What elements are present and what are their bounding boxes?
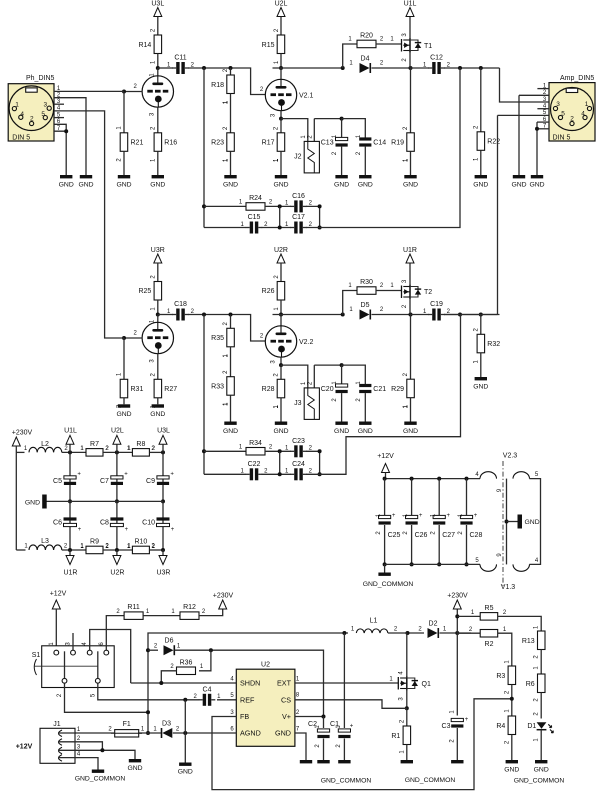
svg-text:C7: C7 — [100, 478, 109, 485]
svg-text:GND: GND — [473, 384, 488, 391]
ic U2 — [236, 669, 295, 746]
ground — [224, 422, 236, 425]
svg-text:+: + — [446, 513, 450, 519]
node riaa-mid-top — [278, 449, 282, 453]
wire — [123, 338, 125, 379]
node q1-src — [405, 706, 409, 710]
svg-text:+: + — [124, 471, 128, 477]
wire riaa-bottom — [204, 227, 246, 229]
switch coupling — [34, 659, 36, 675]
svg-text:1: 1 — [15, 102, 19, 109]
triode V2.2a — [142, 322, 173, 353]
wire q1-source — [406, 689, 408, 709]
node v+ — [322, 715, 326, 719]
wire — [273, 68, 282, 79]
svg-text:1: 1 — [585, 101, 589, 108]
wire cathode — [280, 357, 282, 365]
wire — [103, 451, 133, 453]
resistor R21 — [120, 133, 128, 152]
wire cs-row — [295, 700, 407, 709]
svg-text:U2R: U2R — [110, 570, 124, 577]
ground — [475, 175, 487, 178]
capacitor C5 — [64, 476, 76, 479]
wire — [158, 314, 173, 316]
wire — [342, 365, 366, 385]
svg-text:R21: R21 — [131, 140, 144, 147]
svg-text:U1R: U1R — [63, 570, 77, 577]
svg-text:GND: GND — [358, 428, 373, 435]
ground GND_COMMON — [384, 564, 386, 572]
wire — [143, 615, 180, 617]
wire — [69, 501, 71, 550]
transistor T1 — [401, 39, 403, 52]
ground rail — [42, 495, 47, 509]
svg-text:+12V: +12V — [16, 744, 33, 751]
wire — [323, 717, 325, 729]
resistor R29 — [407, 379, 415, 398]
svg-text:R29: R29 — [391, 386, 404, 393]
resistor R24 — [246, 203, 265, 211]
wire — [540, 650, 542, 675]
capacitor C19 — [432, 309, 435, 321]
wire — [69, 452, 71, 501]
wire — [444, 314, 500, 316]
resistor R9 — [86, 546, 103, 554]
wire — [149, 451, 163, 453]
wire — [103, 549, 133, 551]
svg-text:R14: R14 — [138, 42, 151, 49]
resistor R23 — [227, 133, 235, 152]
wire output-R-rise — [444, 314, 498, 316]
wire u2-gnd — [295, 733, 306, 760]
wire riaa-bottom — [204, 473, 246, 475]
node U3L-rail — [161, 450, 165, 454]
node bypass-junction — [340, 363, 344, 367]
ground — [531, 175, 543, 178]
wire — [511, 735, 513, 761]
svg-text:REF: REF — [240, 696, 255, 705]
diode D5 — [360, 310, 370, 320]
wire ph-pin6 — [54, 124, 66, 131]
ground — [275, 175, 287, 178]
svg-text:V+: V+ — [282, 712, 291, 721]
wire — [480, 315, 482, 335]
svg-text:L2: L2 — [41, 441, 49, 448]
ground — [359, 422, 371, 425]
wire — [457, 632, 480, 634]
wire s1-pin6 — [106, 616, 124, 651]
wire — [230, 395, 232, 421]
wire c3-col — [456, 633, 458, 716]
node feedback-branch — [341, 66, 345, 70]
svg-text:GND: GND — [334, 182, 349, 189]
svg-text:S1: S1 — [32, 652, 41, 659]
svg-text:CS: CS — [281, 696, 291, 705]
capacitor C3 — [451, 718, 463, 721]
wire — [410, 315, 412, 380]
wire — [343, 291, 357, 315]
wire f1-row — [139, 732, 161, 734]
wire agnd-row — [173, 732, 237, 734]
wire — [456, 609, 458, 633]
wire — [265, 205, 291, 207]
capacitor C13 — [336, 137, 348, 140]
wire gate — [376, 43, 402, 45]
wire — [188, 315, 265, 342]
svg-text:C4: C4 — [203, 686, 212, 693]
ground — [317, 760, 329, 763]
svg-text:+: + — [350, 724, 354, 730]
wire bottom-rail — [16, 549, 25, 551]
wire — [498, 633, 512, 666]
node feedback-branch — [341, 313, 345, 317]
ground heater — [507, 521, 518, 523]
wire heater-top-rail — [386, 478, 481, 480]
wire — [281, 365, 308, 388]
svg-text:GND: GND — [273, 182, 288, 189]
svg-text:D3: D3 — [162, 721, 171, 728]
svg-text:C15: C15 — [248, 214, 261, 221]
wire — [116, 452, 118, 501]
wire — [372, 314, 411, 316]
wire q1-drain — [406, 633, 409, 678]
wire — [314, 364, 341, 366]
svg-text:C25: C25 — [388, 532, 401, 539]
svg-text:R18: R18 — [211, 82, 224, 89]
svg-text:Amp_DIN5: Amp_DIN5 — [560, 75, 594, 82]
wire — [411, 67, 430, 69]
svg-text:J1: J1 — [53, 721, 61, 728]
wire j1-pin4 — [58, 758, 98, 770]
svg-text:R20: R20 — [360, 33, 373, 40]
capacitor C28 — [460, 515, 472, 518]
node riaa-tap — [202, 313, 206, 317]
capacitor C9 — [157, 476, 169, 479]
node source-junction — [409, 66, 413, 70]
wire — [281, 314, 343, 316]
resistor R3 — [508, 666, 515, 685]
svg-text:GND: GND — [403, 182, 418, 189]
wire — [123, 92, 125, 133]
svg-text:4: 4 — [20, 111, 24, 118]
node r5-tap — [455, 614, 459, 618]
svg-text:+230V: +230V — [447, 593, 468, 600]
node anode-left — [156, 66, 160, 70]
svg-text:GND_COMMON: GND_COMMON — [514, 778, 565, 785]
svg-text:T1: T1 — [424, 43, 432, 50]
node riaa-return — [458, 66, 462, 70]
wire — [540, 693, 542, 719]
wire — [410, 68, 412, 133]
svg-text:GND_COMMON: GND_COMMON — [363, 581, 414, 588]
ground GND_COMMON — [92, 770, 104, 773]
svg-text:R23: R23 — [211, 140, 224, 147]
node rail — [383, 562, 387, 566]
wire amp-pin2 — [519, 94, 549, 96]
node cathode-junction — [279, 117, 283, 121]
wire riaa-return — [306, 68, 460, 228]
ground — [451, 760, 463, 763]
resistor R19 — [407, 133, 415, 152]
svg-text:Ph_DIN5: Ph_DIN5 — [26, 75, 55, 82]
svg-text:U2L: U2L — [111, 428, 124, 435]
wire — [157, 17, 159, 36]
wire — [157, 398, 159, 405]
node q1-drain — [406, 631, 410, 635]
node +230V-out — [455, 631, 459, 635]
wire ph-pin2 — [54, 98, 86, 175]
svg-text:C12: C12 — [430, 55, 443, 62]
wire — [280, 119, 282, 133]
triode V2.1a — [142, 76, 173, 107]
wire — [273, 315, 282, 326]
wire — [343, 44, 357, 68]
node riaa-right-top — [318, 204, 322, 208]
wire — [162, 501, 164, 550]
wire — [372, 67, 411, 69]
wire — [157, 151, 159, 175]
wire — [411, 479, 413, 515]
wire cathode-left — [157, 107, 159, 133]
svg-text:+: + — [465, 717, 469, 723]
wire — [498, 616, 541, 631]
svg-text:GND_COMMON: GND_COMMON — [405, 777, 456, 784]
ground — [335, 422, 347, 425]
svg-text:R26: R26 — [262, 288, 275, 295]
node grid-divider — [229, 66, 233, 70]
ground — [60, 175, 72, 178]
svg-text:GND: GND — [529, 182, 544, 189]
svg-text:R17: R17 — [262, 140, 275, 147]
fuse F1 — [115, 730, 139, 737]
svg-text:C24: C24 — [292, 461, 305, 468]
resistor R15 — [277, 35, 285, 54]
svg-text:R34: R34 — [249, 440, 262, 447]
wire riaa-mid — [279, 206, 281, 227]
ground — [300, 760, 312, 763]
resistor R30 — [357, 287, 376, 295]
resistor R13 — [538, 631, 546, 650]
svg-text:T2: T2 — [424, 289, 432, 296]
node riaa-right-top — [318, 449, 322, 453]
wire j1-pin3 — [58, 750, 135, 759]
ground — [404, 175, 416, 178]
svg-text:R4: R4 — [496, 723, 505, 730]
node r36-tap — [209, 648, 213, 652]
resistor R28 — [277, 379, 285, 398]
svg-text:R35: R35 — [211, 335, 224, 342]
capacitor C22 — [250, 468, 253, 480]
node rail — [437, 477, 441, 481]
resistor R34 — [246, 448, 265, 456]
wire source — [409, 297, 411, 315]
svg-text:D2: D2 — [429, 621, 438, 628]
ground — [179, 763, 191, 766]
triode V2.1 — [265, 79, 296, 110]
wire — [217, 699, 236, 701]
svg-text:R32: R32 — [487, 341, 500, 348]
svg-text:C22: C22 — [248, 461, 261, 468]
resistor R5 — [480, 613, 498, 621]
resistor R6 — [538, 674, 546, 693]
node shdn — [159, 681, 163, 685]
node grid-divider — [229, 313, 233, 317]
capacitor C8 — [110, 517, 123, 520]
wire — [157, 263, 159, 282]
wire — [123, 151, 125, 175]
svg-text:GND: GND — [223, 428, 238, 435]
diode D6 — [164, 645, 174, 655]
wire — [314, 118, 341, 120]
capacitor C16 — [294, 200, 297, 212]
svg-text:U2: U2 — [261, 662, 270, 669]
wire gate — [376, 290, 402, 292]
svg-text:C23: C23 — [292, 438, 305, 445]
resistor R36 — [177, 667, 196, 675]
svg-text:+: + — [170, 471, 174, 477]
wire +12V-switched rail — [148, 633, 348, 733]
node rail — [410, 477, 414, 481]
wire — [466, 479, 468, 515]
svg-text:C6: C6 — [53, 520, 62, 527]
node heater-ct — [505, 520, 509, 524]
wire r36 — [199, 650, 211, 671]
node U2L-rail — [115, 450, 119, 454]
svg-text:GND: GND — [273, 428, 288, 435]
wire — [280, 263, 282, 282]
svg-text:U1L: U1L — [64, 428, 77, 435]
svg-text:R6: R6 — [526, 681, 535, 688]
node mid-rail — [115, 499, 119, 503]
wire — [188, 68, 265, 95]
node output-shunt — [479, 66, 483, 70]
wire — [158, 67, 173, 69]
wire — [265, 450, 291, 452]
node ref-gnd-branch — [183, 698, 187, 702]
svg-text:GND: GND — [59, 182, 74, 189]
svg-text:R22: R22 — [487, 139, 500, 146]
wire grid-left — [124, 337, 142, 339]
wire amp-pin5 output-R — [498, 114, 550, 116]
capacitor C18 — [176, 309, 179, 321]
node bypass-junction — [340, 117, 344, 121]
svg-text:C27: C27 — [442, 532, 455, 539]
resistor R12 — [180, 612, 199, 620]
wire shdn-row — [131, 682, 237, 684]
resistor R22 — [477, 132, 485, 151]
wire j1-pin2 — [58, 742, 102, 751]
ground — [152, 404, 164, 407]
capacitor C15 — [250, 222, 253, 234]
wire — [438, 525, 440, 564]
ground — [475, 377, 487, 380]
wire — [230, 94, 232, 133]
svg-text:GND_COMMON: GND_COMMON — [321, 778, 372, 785]
wire — [480, 353, 482, 377]
capacitor C7 — [111, 476, 123, 479]
svg-text:C5: C5 — [53, 478, 62, 485]
node riaa-mid-bot — [278, 472, 282, 476]
svg-text:2: 2 — [30, 115, 34, 122]
capacitor C10 — [157, 517, 170, 520]
wire ph-pin4 — [54, 111, 124, 338]
node U3R-rail — [161, 548, 165, 552]
wire grid-left — [124, 91, 142, 93]
ground — [335, 175, 347, 178]
inductor L2 — [29, 447, 62, 452]
ground — [224, 175, 236, 178]
svg-text:C26: C26 — [415, 532, 428, 539]
svg-text:V2.3: V2.3 — [503, 453, 518, 460]
wire s1-pin5 REF row — [98, 683, 200, 700]
svg-text:D6: D6 — [165, 638, 174, 645]
svg-text:Q1: Q1 — [422, 681, 431, 688]
node riaa-left — [202, 449, 206, 453]
capacitor C2 — [317, 729, 329, 732]
wire — [280, 151, 282, 175]
svg-text:C28: C28 — [470, 532, 483, 539]
node riaa-mid-bot — [278, 226, 282, 230]
svg-text:R25: R25 — [138, 288, 151, 295]
wire — [364, 393, 366, 421]
svg-text:GND: GND — [275, 729, 291, 738]
wire — [62, 549, 86, 551]
svg-text:GND_COMMON: GND_COMMON — [75, 776, 126, 783]
svg-text:+: + — [125, 527, 129, 533]
node d6-tap — [146, 648, 150, 652]
svg-text:C11: C11 — [174, 55, 186, 62]
svg-text:3: 3 — [43, 102, 47, 109]
node anode-left — [156, 313, 160, 317]
wire j1-pin1 — [58, 732, 75, 734]
wire v+-row — [295, 716, 324, 718]
svg-text:R9: R9 — [90, 539, 99, 546]
svg-text:+: + — [392, 513, 396, 519]
svg-text:C14: C14 — [373, 140, 386, 147]
wire — [466, 525, 468, 564]
capacitor C26 — [406, 515, 418, 518]
wire — [406, 708, 408, 726]
triode V2.2 — [265, 326, 296, 357]
wire — [281, 119, 308, 142]
node grid-left-junction — [122, 336, 126, 340]
wire fb-loop — [212, 699, 512, 790]
wire — [230, 151, 232, 175]
transistor T2 — [401, 286, 403, 299]
wire — [175, 650, 324, 716]
svg-text:R12: R12 — [183, 604, 196, 611]
node j1-23 — [100, 748, 104, 752]
wire — [440, 632, 472, 634]
wire amp-pin1 stub — [537, 88, 549, 90]
svg-text:4: 4 — [581, 111, 585, 118]
capacitor C24 — [294, 468, 297, 480]
svg-text:C19: C19 — [430, 301, 443, 308]
svg-text:5: 5 — [41, 111, 45, 118]
svg-text:EXT: EXT — [277, 679, 292, 688]
node rail — [383, 477, 387, 481]
node f1-d3 — [146, 731, 150, 735]
wire — [204, 450, 246, 452]
wire — [280, 54, 282, 69]
wire — [384, 479, 386, 515]
svg-text:GND: GND — [223, 182, 238, 189]
wire — [411, 525, 413, 564]
wire — [529, 479, 540, 565]
wire cathode — [280, 111, 282, 119]
wire — [306, 451, 320, 474]
svg-text:2: 2 — [570, 116, 574, 123]
